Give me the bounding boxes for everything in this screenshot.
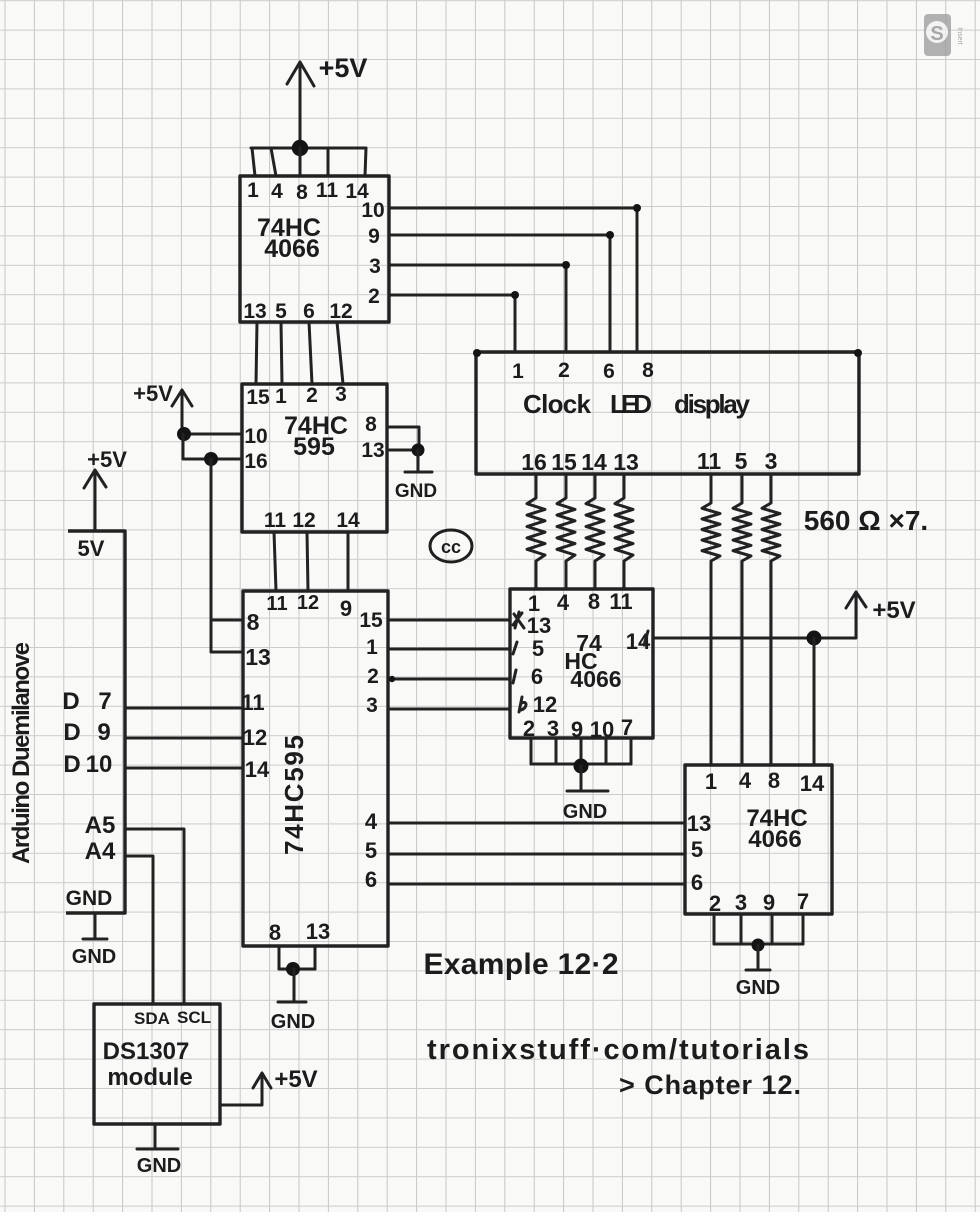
wire: U1 pin9 to display pin6 <box>389 235 610 352</box>
svg-text:5: 5 <box>365 838 377 863</box>
svg-text:2: 2 <box>523 716 535 741</box>
svg-text:9: 9 <box>340 596 352 621</box>
svg-text:D: D <box>62 688 79 715</box>
svg-text:+5V: +5V <box>319 53 368 83</box>
svg-text:11: 11 <box>316 179 339 202</box>
scanner watermark <box>924 14 963 56</box>
svg-text:GND: GND <box>736 977 780 999</box>
wire: DS1307 to +5V <box>220 1075 262 1105</box>
wire: U3 GND bus <box>531 763 631 766</box>
svg-text:8: 8 <box>269 920 281 945</box>
wire: U1 pin14 to bus <box>365 148 366 176</box>
wire: long +5V rail down to U5 pins 8 and 13 <box>211 459 243 652</box>
svg-text:Arduino Duemilanove: Arduino Duemilanove <box>8 642 35 864</box>
wire: U2 pin11 to U5 pin11 <box>274 532 276 591</box>
svg-text:12: 12 <box>292 509 315 532</box>
svg-text:9: 9 <box>368 225 380 248</box>
resistor R6 <box>733 474 751 765</box>
svg-text:10: 10 <box>590 717 614 742</box>
svg-text:D: D <box>63 719 80 746</box>
wire: U4 pin3 to GND bus <box>740 914 743 944</box>
svg-text:13: 13 <box>243 300 266 323</box>
svg-text:14: 14 <box>581 449 607 475</box>
svg-text:14: 14 <box>336 509 360 532</box>
node: blob on pin2 wire <box>389 676 395 682</box>
ground (U3): stem and bar <box>567 766 608 791</box>
svg-text:11: 11 <box>266 593 287 615</box>
svg-text:SDA: SDA <box>134 1009 170 1028</box>
+5V supply arrow (top) <box>287 62 314 148</box>
wire: U5 pin4 to U4 pin13 <box>388 822 685 825</box>
svg-text:8: 8 <box>365 413 377 436</box>
svg-text:GND: GND <box>66 887 113 910</box>
wire: A5 to DS1307 SCL <box>125 829 184 1004</box>
node: junction dot on +5V bus <box>292 140 308 156</box>
svg-text:13: 13 <box>613 449 639 475</box>
scribble at U3 pin6 <box>513 670 516 683</box>
svg-text:6: 6 <box>303 300 315 323</box>
svg-text:cc: cc <box>441 537 461 557</box>
svg-text:12: 12 <box>533 692 557 717</box>
svg-text:10: 10 <box>86 751 113 778</box>
wire: D9 to U5 pin12 <box>125 737 243 740</box>
node: corner dot pin9 wire <box>606 231 614 239</box>
node: junction dot at U2 pin10 wire <box>177 427 191 441</box>
ground (U4): stem and bar <box>746 945 770 970</box>
svg-text:GND: GND <box>395 481 437 502</box>
svg-text:3: 3 <box>335 383 347 406</box>
node: display top-left corner dot <box>473 349 481 357</box>
svg-text:GND: GND <box>72 946 116 968</box>
svg-text:9: 9 <box>97 719 110 746</box>
svg-text:7: 7 <box>797 889 809 914</box>
node: junction dot U3 GND <box>574 759 589 774</box>
CC symbol <box>430 530 472 562</box>
svg-text:GND: GND <box>563 801 607 823</box>
svg-text:4066: 4066 <box>264 235 320 263</box>
svg-text:tronixstuff·com/tutorials: tronixstuff·com/tutorials <box>427 1034 809 1066</box>
svg-text:11: 11 <box>264 509 287 532</box>
svg-text:1: 1 <box>275 385 287 408</box>
wire: U1 pin10 to display pin8 <box>389 208 637 352</box>
wire: U3 pin3 to GND bus <box>555 738 558 764</box>
wire: U2 pin8/pin13 to GND <box>387 427 419 450</box>
svg-text:2: 2 <box>709 891 721 916</box>
wire: +5V to U2 pin10 <box>184 433 242 436</box>
svg-text:DS1307: DS1307 <box>103 1038 190 1065</box>
svg-text:10: 10 <box>361 199 384 222</box>
svg-text:1: 1 <box>247 179 259 202</box>
resistor R3 <box>586 474 604 589</box>
IC U3 74HC4066 body <box>510 589 653 738</box>
resistor R1 <box>527 474 545 589</box>
node: corner dot pin10 wire <box>633 204 641 212</box>
node: junction dot at U2 GND <box>412 444 425 457</box>
svg-text:12: 12 <box>297 592 319 614</box>
wire: U1 pin11 to bus <box>327 148 330 176</box>
svg-text:9: 9 <box>763 890 775 915</box>
wire: U5 pin8 bottom to GND bus <box>278 946 281 969</box>
svg-text:Insert: Insert <box>956 27 963 45</box>
node: junction dot on pin16 wire <box>204 452 218 466</box>
node: junction dot U4 GND <box>752 939 765 952</box>
svg-text:595: 595 <box>293 433 335 461</box>
resistor R4 <box>615 474 633 589</box>
svg-text:> Chapter 12.: > Chapter 12. <box>619 1070 801 1100</box>
resistor R2 <box>557 474 575 589</box>
svg-text:5: 5 <box>532 636 544 661</box>
svg-text:7: 7 <box>98 688 111 715</box>
svg-text:3: 3 <box>735 890 747 915</box>
svg-text:16: 16 <box>244 450 267 473</box>
ground (Arduino): stem and bar <box>83 913 107 939</box>
svg-text:15: 15 <box>359 609 383 632</box>
svg-text:1: 1 <box>512 360 524 383</box>
+5V arrow (left of U2) <box>172 390 192 434</box>
svg-text:5V: 5V <box>78 536 105 561</box>
svg-text:4: 4 <box>557 590 570 615</box>
wire: U4 pin7 to GND bus <box>802 914 805 944</box>
svg-text:+5V: +5V <box>872 597 915 624</box>
IC U5 74HC595 body <box>243 591 388 946</box>
svg-text:74HC595: 74HC595 <box>279 735 309 855</box>
svg-text:5: 5 <box>735 448 748 474</box>
svg-text:12: 12 <box>329 300 352 323</box>
wire: U1 pin13 to U2 pin15 <box>256 322 257 384</box>
wire: junction down to U4 pin14 <box>813 638 816 765</box>
svg-text:8: 8 <box>768 768 780 793</box>
IC U2 74HC595 body <box>242 384 387 532</box>
+5V arrow (Arduino 5V) <box>84 470 106 531</box>
wire: U1 pin5 to U2 pin1 <box>281 322 282 384</box>
svg-text:display: display <box>674 389 751 419</box>
ground (DS1307): stem and bar <box>137 1124 178 1149</box>
svg-text:A4: A4 <box>85 838 116 865</box>
svg-text:D: D <box>63 751 80 778</box>
resistor R7 <box>762 474 780 765</box>
svg-text:13: 13 <box>527 613 551 638</box>
svg-text:GND: GND <box>137 1155 181 1177</box>
wire: U5 pin13 bottom to GND bus <box>314 946 317 969</box>
display box <box>476 352 859 474</box>
svg-text:10: 10 <box>244 425 267 448</box>
+5V arrow (right) <box>846 592 866 608</box>
wire: U5 pin3 to U3 pin12 <box>388 708 510 711</box>
svg-text:560 Ω ×7.: 560 Ω ×7. <box>804 505 928 536</box>
svg-text:2: 2 <box>306 384 318 407</box>
svg-text:11: 11 <box>609 589 632 614</box>
node: display top-right corner dot <box>854 349 862 357</box>
svg-text:15: 15 <box>551 449 577 475</box>
svg-text:16: 16 <box>521 449 547 475</box>
DS1307 body <box>94 1004 220 1124</box>
resistor R5 <box>702 474 720 765</box>
wire: D10 to U5 pin14 <box>125 767 243 770</box>
wire: U4 GND bus <box>714 943 803 946</box>
svg-text:2: 2 <box>558 359 570 382</box>
ground (U2): stem and bar <box>405 450 432 472</box>
svg-text:13: 13 <box>245 644 271 670</box>
svg-text:8: 8 <box>296 181 308 204</box>
svg-text:5: 5 <box>275 300 287 323</box>
wire: U1 pin3 to display pin2 <box>389 265 566 352</box>
svg-text:SCL: SCL <box>177 1008 211 1027</box>
wire: U5 pin15 to U3 pin13 <box>388 619 510 622</box>
node: corner dot pin3 wire <box>562 261 570 269</box>
svg-text:3: 3 <box>366 694 378 717</box>
svg-text:+5V: +5V <box>274 1066 317 1093</box>
wire: U4 pin2 to GND bus <box>713 914 716 944</box>
wire: U1 pin1 to bus <box>252 148 255 176</box>
svg-text:6: 6 <box>691 870 703 895</box>
Arduino body (open left) <box>66 531 125 913</box>
scribble at U3 pin13 <box>513 612 524 628</box>
scribble at U3 pin12 <box>519 697 526 712</box>
wire: U2 pin14 to U5 pin9 <box>347 532 350 591</box>
svg-text:15: 15 <box>246 386 270 409</box>
svg-text:4: 4 <box>271 180 283 203</box>
svg-text:11: 11 <box>697 448 722 474</box>
svg-text:module: module <box>107 1064 192 1091</box>
wire: A4 to DS1307 SDA <box>125 856 153 1004</box>
node: junction dot +5V to U4 pin14 <box>807 631 822 646</box>
wire: U4 pin9 to GND bus <box>771 914 774 944</box>
svg-text:4: 4 <box>739 768 752 793</box>
svg-text:7: 7 <box>621 715 633 740</box>
wire: U2 pin12 to U5 pin12 <box>307 532 308 591</box>
svg-text:6: 6 <box>365 867 377 892</box>
svg-text:6: 6 <box>603 360 615 383</box>
wire: U3 pin14 to +5V rail <box>653 594 856 638</box>
svg-text:Clock: Clock <box>523 389 592 419</box>
wire: U1 pin8 to bus <box>299 148 302 176</box>
wire: +5V bus above U1 <box>251 147 366 150</box>
wire: U1 pin2 to display pin1 <box>389 295 515 352</box>
svg-text:13: 13 <box>306 919 330 944</box>
svg-text:6: 6 <box>531 664 543 689</box>
svg-text:+5V: +5V <box>133 381 173 406</box>
svg-text:14: 14 <box>245 757 270 782</box>
wire: U5 pin5 to U4 pin5 <box>388 853 685 856</box>
scribble at U3 pin5 <box>513 642 517 654</box>
wire: U5 pin1 to U3 pin5 <box>388 648 510 651</box>
wire: D7 to U5 pin11 <box>125 707 243 710</box>
wire: U5 pin2 to U3 pin6 <box>388 678 510 681</box>
svg-text:13: 13 <box>687 811 711 836</box>
svg-text:8: 8 <box>588 589 600 614</box>
svg-text:Example 12·2: Example 12·2 <box>424 948 619 981</box>
svg-text:S: S <box>930 23 943 45</box>
IC U4 74HC4066 body <box>685 765 832 914</box>
svg-text:2: 2 <box>368 285 380 308</box>
wire: U3 pin7 to GND bus <box>630 738 633 764</box>
wire: U3 pin2 to GND bus <box>530 738 533 764</box>
node: junction dot U5 GND <box>286 962 300 976</box>
svg-text:4: 4 <box>365 809 378 834</box>
+5V arrow (DS1307) <box>253 1073 271 1088</box>
wire: U5 GND bus <box>279 968 315 971</box>
svg-text:3: 3 <box>765 448 778 474</box>
wire: U1 pin6 to U2 pin2 <box>309 322 312 384</box>
wire: +5V down and right to U2 pin16 <box>183 434 242 459</box>
scribble at U3 pin14 exit <box>644 631 648 645</box>
svg-text:11: 11 <box>241 690 264 715</box>
svg-text:8: 8 <box>642 359 654 382</box>
svg-text:2: 2 <box>367 665 379 688</box>
wire: U3 pin10 to GND bus <box>605 738 608 764</box>
node: corner dot pin2 wire <box>511 291 519 299</box>
wire: U1 pin4 to bus <box>271 148 276 176</box>
wire: U1 pin12 to U2 pin3 <box>337 322 343 384</box>
svg-text:5: 5 <box>691 837 703 862</box>
svg-text:13: 13 <box>361 439 384 462</box>
svg-text:3: 3 <box>369 255 381 278</box>
svg-text:A5: A5 <box>85 812 116 839</box>
svg-text:LED: LED <box>610 389 652 419</box>
svg-text:12: 12 <box>243 725 267 750</box>
wire: U5 pin6 to U4 pin6 <box>388 883 685 886</box>
svg-text:1: 1 <box>366 636 378 659</box>
svg-text:4066: 4066 <box>748 826 801 853</box>
svg-text:1: 1 <box>705 769 717 794</box>
svg-text:+5V: +5V <box>87 447 127 472</box>
IC U1 74HC4066 body <box>240 176 389 322</box>
svg-text:4066: 4066 <box>570 666 621 692</box>
svg-text:14: 14 <box>800 771 825 796</box>
svg-text:GND: GND <box>271 1011 315 1033</box>
ground (U5): stem and bar <box>278 969 306 1002</box>
wire: U3 pin9 to GND bus <box>580 738 583 764</box>
svg-text:8: 8 <box>247 609 260 635</box>
